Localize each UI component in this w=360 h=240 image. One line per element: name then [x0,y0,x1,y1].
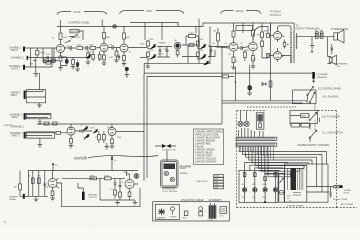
wire strip stubs [241,146,274,160]
labels small tone [158,43,166,56]
rectifier diode D3 [262,175,267,203]
resistor under row b [98,51,101,61]
rectifier diode D2 [252,171,257,203]
svg-text:S.B. AC POWER: S.B. AC POWER [322,116,340,119]
svg-text:1500: 1500 [117,137,121,139]
wire B+ rail top [57,23,294,26]
note left small text [180,165,191,171]
resistor plate V3 [123,33,126,39]
svg-text:.047: .047 [163,49,167,51]
foot switch box [161,160,179,188]
ground ch2b [38,138,43,147]
resistor decouple B [51,59,55,62]
resistor under row a [92,50,95,61]
box wire color chart [194,129,224,165]
input jack J3 [9,48,52,70]
pot wiper volume ch1 row [87,55,91,58]
reverb transformer box [256,113,264,129]
svg-text:FOOT SWITCH: FOOT SWITCH [163,191,178,193]
svg-text:450V: 450V [262,184,267,186]
svg-text:AC POWER: AC POWER [341,203,353,206]
svg-text:SPEAKER: SPEAKER [317,76,328,79]
svg-text:1.: 1. [4,220,7,224]
star washer [157,208,166,219]
tick above rail a [60,20,62,26]
resistor reverb b [37,178,40,183]
resistor tone slope 4 [197,52,201,59]
box rectifier assembly [239,171,278,203]
switch S2 chassis [293,90,339,104]
resistor ch2 rail b [53,122,57,125]
svg-text:.01: .01 [110,189,113,191]
svg-text:GROMMETS: GROMMETS [209,200,223,202]
svg-text:2.2K: 2.2K [109,57,114,59]
svg-text:.02: .02 [129,52,132,54]
resistor stack PI right [261,29,264,52]
svg-text:VOLUME: VOLUME [71,31,81,33]
ground OT secondary [310,37,315,53]
screw head [170,207,177,219]
svg-text:6-32: 6-32 [214,182,218,184]
pot wiper row3 [204,61,209,65]
pot VOLUME ch1 [69,30,83,41]
pot wiper BASS ch1 [151,55,156,59]
wire V9 out to vertical pair [116,131,144,133]
wire tone verticals [144,19,210,74]
tube V3 [120,39,128,56]
resistor stack ch2 [98,131,106,143]
svg-text:M: M [315,30,317,32]
wire NFB horizontal [144,72,312,74]
ground ch2 stack [105,143,110,149]
svg-text:TOU2: TOU2 [73,10,81,14]
wire fan harness [239,146,326,192]
fuse blocks row [290,123,311,127]
svg-text:INPUT 2: INPUT 2 [12,136,21,138]
socket circle A [238,121,243,126]
wire PT to plug [307,187,334,192]
svg-text:TO PIN 2: TO PIN 2 [270,13,281,17]
capacitor trem phase 1 [114,178,117,190]
resistor B+ dropper [269,81,272,87]
note TO PIN text [270,10,281,18]
wire trem ground bus [100,178,135,200]
fuse line vertical [330,192,332,198]
svg-text:EXTERNAL: EXTERNAL [317,73,329,76]
jack assembly [199,207,203,216]
svg-text:INPUT: INPUT [12,117,19,119]
resistor cathode V2 [102,55,107,66]
rca jack symbol [134,174,139,179]
wire speaker return [327,37,329,57]
wire ch2b loop [26,132,54,138]
arrow B+ reverb [52,163,58,171]
input jack J5 channel2 [10,113,51,120]
wire rail drops [60,26,62,33]
capacitor tone mid [159,47,162,58]
svg-text:1M: 1M [174,40,177,42]
svg-text:60 HZ: 60 HZ [344,192,350,194]
svg-text:470K: 470K [46,54,51,56]
resistor tone slope 3 [197,41,201,49]
wire ch2 loop [26,114,51,119]
ground tone stack 2 [177,56,179,58]
svg-text:250K: 250K [140,43,145,45]
svg-text:100K: 100K [264,31,269,33]
label BRIGHT switch [65,37,81,43]
capacitor coupling V2-V3 [108,45,120,49]
connector OP coil [320,30,324,38]
resistor tone slope 2 [147,51,151,59]
pot wiper ch2 tone [84,135,89,139]
wire tone row 2 [140,50,215,58]
label footswitch side [180,166,192,175]
svg-text:.02: .02 [66,46,69,48]
wire tone row 1 [128,45,229,48]
resistor ch2 rail a [44,122,49,125]
svg-text:OUTPUT: OUTPUT [88,197,97,199]
wire switch column verticals [307,95,320,142]
svg-text:INSULATOR CABLES: INSULATOR CABLES [181,199,204,202]
tube V11 tremolo osc [125,174,134,192]
molded plug dark [208,203,217,222]
lamp pilot on rail [113,25,116,28]
socket circle B [244,121,249,126]
wire socket leads [238,111,263,137]
ground trem bus [115,200,120,205]
input jack J2 [11,56,88,60]
svg-text:1M: 1M [213,31,216,33]
box power transformer outer [285,164,329,202]
svg-text:CONNECTOR: CONNECTOR [162,149,176,151]
wire NFB resistor [222,70,234,124]
resistor screen V6 [283,40,288,49]
transformer T1 power [285,166,307,203]
svg-text:250K: 250K [199,39,204,41]
svg-text:1M: 1M [228,54,231,56]
svg-text:.02: .02 [240,43,243,45]
resistor to V2 grid [90,45,101,50]
switch S3 ac power [309,112,340,120]
svg-text:.02: .02 [80,125,83,127]
wire trem to rca [134,174,138,184]
resistor cathode V10 [50,191,55,201]
capacitor trem phase 2 [119,178,122,192]
ground below node [125,71,130,77]
switch S1 [307,86,342,95]
capacitor cathode bypass V1 [61,57,69,66]
capacitor tone right [210,46,213,57]
svg-text:CONTROL PANEL: CONTROL PANEL [68,21,90,25]
input jack J4 vibrato [11,91,46,100]
svg-text:.02: .02 [89,51,92,53]
svg-text:TREBLE: TREBLE [158,43,166,45]
resistor input 470K [31,48,46,67]
resistor grid V2 [77,45,87,50]
label foot switch [163,188,178,193]
capacitor small under row [118,55,120,60]
terminal strip [236,137,277,146]
svg-text:TO PIN 6: TO PIN 6 [270,10,281,14]
resistor trem a [90,175,97,180]
wire plate loop V6 [278,26,292,31]
grommet small [183,211,188,220]
resistor 4.7K grid stopper [43,48,54,64]
tube V1 [57,40,65,57]
wire vibrato loop [26,73,45,103]
wire harness into rectifier [245,163,288,176]
svg-text:220K: 220K [77,45,83,47]
resistor trem d [119,192,122,200]
dashed bottom extension [337,207,358,209]
svg-text:.01: .01 [121,182,124,184]
svg-text:120VAC: 120VAC [344,189,352,192]
svg-text:rev/vib: rev/vib [74,156,87,161]
svg-text:WASHER: WASHER [157,216,166,219]
svg-text:(2) REVERB: (2) REVERB [180,166,192,168]
svg-text:LUG: LUG [220,216,224,218]
svg-text:470K: 470K [245,50,250,52]
wire ch2 row rail [37,123,222,125]
resistor mid PI [244,50,247,61]
tube V10 reverb driver [48,171,59,192]
fuse speaker line [331,44,334,54]
capacitor row2 a [47,56,48,59]
wire vertical pair feed [144,73,147,170]
bracket label middle [120,9,185,14]
speaker extension lower [328,55,337,65]
resistor cathode V11 [128,192,131,200]
tube V2 [100,39,108,56]
pot wiper TREBLE ch2 [201,45,206,49]
svg-text:.02: .02 [224,43,227,45]
dashed box power supply [237,111,337,208]
svg-text:S.L. GND SWITCH: S.L. GND SWITCH [323,131,344,134]
svg-text:250K: 250K [199,50,204,52]
speaker main [334,30,344,43]
wire decouple row ch1 [33,60,58,62]
svg-text:SLO-BLO FUSE: SLO-BLO FUSE [333,199,348,201]
svg-text:12 SPEAKER 8Ω: 12 SPEAKER 8Ω [331,28,349,31]
wire OT secondary to speaker [297,36,334,38]
svg-text:8-32: 8-32 [214,179,218,181]
label ac mains [344,189,352,195]
pot wiper BASS ch2 [201,55,206,59]
svg-text:SCREW: SCREW [170,217,177,219]
svg-text:INPUT 2: INPUT 2 [11,68,20,70]
wire B+ drop trem [111,157,117,171]
tube V7 output lower [274,48,282,62]
capacitor filter node [247,65,252,96]
wire B+ subrail [130,23,178,27]
ground trem right [133,200,138,205]
wire trem plate [127,171,130,177]
wire plug link [329,187,331,192]
label T2 OUTPUT TRANS [296,25,320,31]
svg-text:100K: 100K [63,37,68,39]
wire B+ dropper vertical [270,23,272,101]
svg-text:4-40: 4-40 [214,184,218,186]
ground V1 cathode [58,66,63,70]
svg-text:POWER SUPPLY CHASSIS: POWER SUPPLY CHASSIS [298,144,330,147]
wire reverb verticals [28,171,44,197]
svg-text:S1 CONTROL PANEL: S1 CONTROL PANEL [318,87,342,90]
note speaker code stack [214,175,224,190]
resistor reverb grid [14,171,22,197]
resistor under cap [114,48,119,63]
resistor plate V1 [59,33,62,40]
svg-text:TALT: TALT [146,9,153,13]
resistor cathode V9 [110,139,115,149]
box interlock [290,110,318,123]
label lower speaker [335,63,348,69]
svg-text:470: 470 [253,59,256,61]
svg-text:XXX: XXX [302,116,307,118]
pot arrows ch2 small [93,130,97,133]
capacitor PI couple [238,46,249,50]
resistor grid V6 [267,34,274,38]
ac plug [334,185,343,188]
resistor plate V4 [232,23,235,37]
dashed wire interlock [247,106,296,108]
ground tone stack [146,59,151,69]
resistor cathode V3 [122,56,127,67]
svg-text:20 AL INCH: 20 AL INCH [196,180,208,183]
input jack J6 [10,132,55,139]
resistor plate V2 [103,33,106,39]
resistor grid ch2 [54,131,67,134]
capacitor coupling V1-V2 [65,46,77,50]
resistor row1 mid [189,44,194,47]
resistor tail V5 [251,56,256,69]
pot wiper ch2 vol [83,127,88,131]
capacitor reverb c [43,184,46,185]
svg-text:POWER TRANS: POWER TRANS [287,204,304,207]
capacitor coupling to V7 [262,52,268,58]
svg-text:CHANNEL 1: CHANNEL 1 [11,57,25,60]
tick above rail b [101,20,103,27]
bracket label channel one [57,10,107,15]
svg-text:.02: .02 [52,38,55,40]
bracket label right channel [221,9,262,14]
wire tone row 3 [144,62,211,64]
terminal lug [220,207,227,218]
wire reverb out loop [57,178,140,206]
svg-text:BRIGHT: BRIGHT [73,37,82,39]
jack reverb pedal [9,194,28,201]
svg-text:2-56: 2-56 [214,187,218,189]
capacitor coupling 2 [86,46,90,50]
svg-text:100K: 100K [126,37,131,39]
resistor PI input [213,28,219,48]
note wire color code text block [195,131,224,164]
svg-text:250K: 250K [90,128,95,130]
svg-text:250K: 250K [149,39,154,41]
svg-text:1WU2: 1WU2 [236,9,244,13]
node junction B [235,81,237,83]
capacitor coupling to V6 [253,27,268,41]
svg-text:220K: 220K [189,33,195,35]
resistor drop x88 [86,50,91,65]
svg-text:1M: 1M [14,187,17,189]
bowtie connector symbol [155,144,176,161]
svg-text:100K: 100K [106,37,111,39]
diode bias [262,83,267,86]
svg-text:.02: .02 [212,43,215,45]
resistor cathode V1 [59,56,62,66]
pot wiper TREBLE ch1 [151,45,156,49]
node dot junction [125,67,129,71]
svg-text:PEDAL: PEDAL [9,198,17,201]
svg-text:VIBRATO: VIBRATO [180,172,189,175]
svg-text:OP: OP [320,30,324,32]
wire loop box PI top [236,26,253,31]
svg-text:250K: 250K [149,50,154,52]
wire row2 horizontal [147,75,222,77]
node rectifier output [264,201,266,203]
svg-text:N.A. CHASSIS: N.A. CHASSIS [323,95,339,98]
tube V5 phase inverter [249,37,258,56]
svg-text:220K: 220K [90,175,95,177]
svg-text:CONTROL: CONTROL [4,125,15,127]
ground vibrato jack [37,103,42,108]
svg-text:10-32: 10-32 [214,176,219,178]
svg-text:9 WHITE-ORANGE: 9 WHITE-ORANGE [195,160,217,163]
rectifier diode D1 [242,171,247,203]
tube V8 channel2 [67,124,75,139]
resistor tone slope [147,40,151,49]
svg-text:INPUT: INPUT [11,95,18,97]
wire vertical pair lower [144,171,147,182]
wire reverb rail [28,170,138,172]
connector M coil [315,30,318,38]
wire screen node [235,67,237,101]
resistor reverb a [31,178,34,183]
wire ground bus reverb [20,195,48,197]
svg-text:8Ω: 8Ω [337,66,340,68]
resistor row2 drop [71,58,76,70]
ground ch2 jacks [38,119,43,125]
resistor trem c [114,190,117,199]
resistor cathode V8 [69,139,74,149]
value labels sprinkle [28,31,269,192]
wire note pointer [88,156,158,158]
svg-text:100K: 100K [123,172,128,174]
jack reverb output [78,183,98,200]
external speaker jack [312,72,329,83]
transformer T2 output [290,31,298,63]
pot MIDDLE dark circle [174,42,181,57]
wire grid V4 [215,47,229,71]
tube V9 channel2 second [108,124,116,140]
svg-text:.02: .02 [109,45,112,47]
hardware parts box [153,199,230,222]
ground reverb bus [34,196,39,202]
wire ch2 couple [75,130,92,141]
svg-text:BASS: BASS [158,53,164,56]
fuse box [279,173,284,202]
svg-text:PLUG: PLUG [208,220,214,222]
tube V4 phase inverter [229,37,238,57]
input jack J1 [9,47,57,53]
ground input bus [34,58,39,77]
resistor trem b [97,175,125,180]
resistor 220K top mid [186,33,199,45]
svg-text:100K: 100K [104,175,109,177]
capacitor tone mid2 [166,47,169,58]
resistor tail V4 [231,57,236,70]
svg-text:68K: 68K [90,45,94,47]
